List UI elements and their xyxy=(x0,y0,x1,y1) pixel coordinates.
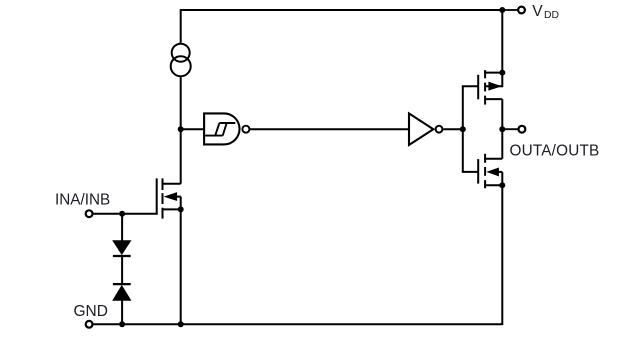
terminal: INA/INB pin xyxy=(86,210,93,217)
junction: schmitt trigger input node xyxy=(178,126,184,132)
transistor Q1 (input NMOS) xyxy=(157,178,181,218)
terminal: OUTA/OUTB pin xyxy=(519,126,526,133)
wire: current source to input FET drain / schmitt input node xyxy=(180,76,182,184)
wire: schmitt output to inverter input xyxy=(250,128,409,130)
wire: node to schmitt trigger input xyxy=(181,128,204,130)
transistor Q2 body arrow (points right = PMOS) xyxy=(489,82,501,90)
junction: input node / clamp diodes tap xyxy=(119,211,125,217)
transistor Q3 (output NMOS) xyxy=(478,154,502,189)
schmitt trigger U1 body xyxy=(204,113,239,144)
wire: GND bottom rail xyxy=(93,323,503,325)
wire: D1 cathode to D2 cathode xyxy=(121,256,123,284)
wire: gate lead to NMOS Q3 xyxy=(462,171,478,173)
label: VDD xyxy=(532,3,559,21)
svg-text:INA/INB: INA/INB xyxy=(55,192,110,209)
transistor Q2 (output PMOS) xyxy=(478,70,502,105)
transistor Q3 body arrow (points left = NMOS) xyxy=(487,168,498,176)
wire: VDD rail to VDD terminal xyxy=(502,9,518,11)
terminal: GND pin xyxy=(86,321,93,328)
junction: Q3 source to GND line xyxy=(499,182,505,188)
junction: VDD rail / output PMOS source xyxy=(499,7,505,13)
wire: VDD rail down to current source xyxy=(180,9,182,44)
terminal: VDD pin xyxy=(518,7,525,14)
junction: Q1 source/body tie xyxy=(178,206,184,212)
wire: input terminal to input FET gate xyxy=(93,213,158,215)
wire: Q1 source down to GND rail xyxy=(180,209,182,325)
junction: Q1 source to GND rail xyxy=(178,321,184,327)
wire: gate bus vertical xyxy=(462,86,464,172)
diode D2 (clamp, anode down) xyxy=(113,284,131,300)
junction: gate bus node xyxy=(460,126,466,132)
wire: VDD down to Q2 source xyxy=(501,10,503,73)
svg-text:DD: DD xyxy=(544,10,559,21)
junction: output node xyxy=(499,126,505,132)
wire: input node down to diode D1 xyxy=(121,214,123,241)
wire: gate lead to PMOS Q2 xyxy=(462,85,478,87)
transistor Q1 body arrow (points left = NMOS) xyxy=(165,193,177,201)
wire: Q3 source down to GND rail xyxy=(501,185,503,325)
svg-text:OUTA/OUTB: OUTA/OUTB xyxy=(510,143,600,160)
wire: inverter output to output-stage gate bus xyxy=(443,128,463,130)
current source I1 (lower circle) xyxy=(171,56,191,76)
wire: Q2 drain to output node to Q3 drain xyxy=(501,99,503,159)
schmitt trigger U1 hysteresis mark xyxy=(205,123,235,136)
svg-text:GND: GND xyxy=(74,303,108,320)
wire: D2 anode down to GND rail xyxy=(121,300,123,325)
diode D1 (clamp, anode up) xyxy=(113,241,131,256)
inverter U2 output bubble xyxy=(436,126,443,133)
wire: VDD top rail xyxy=(181,9,503,11)
svg-text:V: V xyxy=(532,3,543,20)
wire: output node to OUTA/OUTB terminal xyxy=(502,128,518,130)
inverter U2 triangle xyxy=(409,113,433,145)
schmitt trigger U1 output bubble xyxy=(242,126,249,133)
junction: diode chain to GND rail xyxy=(119,321,125,327)
current source I1 (upper circle) xyxy=(172,44,190,62)
junction: Q2 source to VDD line xyxy=(499,70,505,76)
